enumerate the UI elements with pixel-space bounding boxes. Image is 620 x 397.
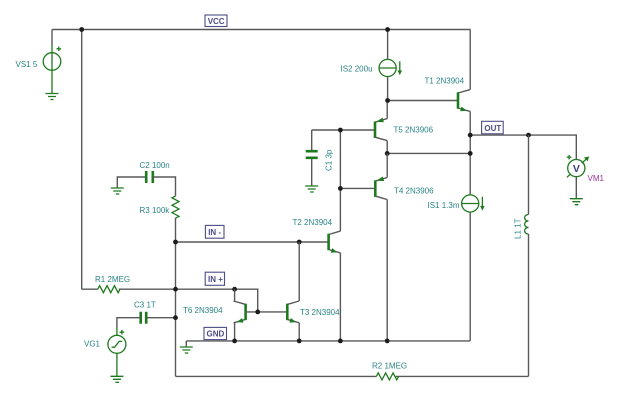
- svg-text:VCC: VCC: [208, 17, 225, 26]
- voltage source VS1: [43, 47, 61, 71]
- wire GND stub: [185, 341, 187, 347]
- label VM1: [588, 174, 605, 183]
- node junction (175.5,289.2): [173, 287, 178, 292]
- transistor T1 2N3904: [458, 90, 470, 112]
- transistor T5 2N3906 (PNP): [375, 118, 387, 141]
- svg-text:C1 3p: C1 3p: [325, 149, 334, 171]
- svg-text:IN -: IN -: [208, 228, 221, 237]
- svg-text:C2 100n: C2 100n: [140, 161, 170, 170]
- node junction (299.2,340.9): [297, 339, 302, 344]
- wire T4 emitter up: [386, 153, 388, 177]
- label T1 2N3904: [425, 77, 465, 86]
- wire left feedback drop x=81.7: [81, 30, 83, 290]
- wire bottom feedback rail y=376.4: [176, 375, 529, 377]
- wire T1 emitter / IS1 column: [469, 111, 471, 341]
- node junction (234.6,340.9): [232, 339, 237, 344]
- label C3 1T: [134, 301, 156, 310]
- label T3 2N3904: [300, 308, 340, 317]
- wire IS2 to T1 base: [388, 100, 458, 102]
- node junction (299.2,242): [297, 240, 302, 245]
- node junction (234.6,289.2): [232, 287, 237, 292]
- node junction (470.2,135.1): [468, 133, 473, 138]
- label VS1 5: [16, 60, 38, 69]
- label R2 1MEG: [372, 362, 407, 371]
- label C1 3p: [325, 149, 334, 171]
- voltmeter VM1: [567, 155, 589, 178]
- svg-text:VS1 5: VS1 5: [16, 60, 38, 69]
- wire OUT rail: [470, 135, 576, 159]
- svg-text:V: V: [573, 163, 580, 175]
- transistor T2 2N3904: [329, 231, 341, 253]
- resistor R2: [376, 373, 398, 380]
- wire C1 top leg: [311, 130, 313, 186]
- wire IN- rail: [176, 241, 329, 243]
- node junction (387.2,340.9): [385, 339, 390, 344]
- label T4 2N3906: [394, 187, 434, 196]
- svg-text:IS1 1.3m: IS1 1.3m: [428, 201, 460, 210]
- svg-text:OUT: OUT: [484, 124, 501, 133]
- label L1 1T: [514, 218, 523, 239]
- wire VCC top rail: [52, 29, 470, 31]
- svg-text:IN +: IN +: [208, 275, 223, 284]
- node IN+ label: [205, 272, 224, 285]
- wire T4 base: [340, 187, 375, 189]
- node junction (387.6,29.5): [385, 27, 390, 32]
- svg-text:GND: GND: [207, 330, 225, 339]
- wire IS2 column: [387, 30, 389, 101]
- label R1 2MEG: [95, 275, 130, 284]
- svg-text:T4 2N3906: T4 2N3906: [394, 187, 434, 196]
- current source IS2: [379, 59, 402, 76]
- wire T6 emitter: [234, 323, 235, 341]
- wire IN- column x=175.5: [175, 218, 177, 376]
- node junction (340.4,188.4): [338, 186, 343, 191]
- ground (GND net): [180, 347, 193, 353]
- label R3 100k: [140, 206, 171, 215]
- node IN- label: [205, 225, 224, 238]
- svg-text:T6 2N3904: T6 2N3904: [183, 306, 223, 315]
- wire C3 left to VG1: [117, 318, 141, 377]
- resistor R1: [98, 286, 120, 293]
- inductor L1: [525, 215, 529, 235]
- wire C1/T5 base rail: [312, 129, 375, 131]
- wire base rail T6-T3: [246, 311, 288, 313]
- node GND label: [204, 327, 227, 339]
- wire T6 collector: [234, 289, 235, 301]
- ground (VG1): [110, 376, 123, 382]
- label C2 100n: [140, 161, 170, 170]
- node junction at (81.7,29.5): [79, 27, 84, 32]
- ground (VS1): [46, 94, 59, 100]
- capacitor C2: [146, 171, 153, 183]
- wire VM1 lower stub: [575, 177, 577, 199]
- svg-text:L1 1T: L1 1T: [514, 218, 523, 239]
- capacitor C3: [141, 312, 147, 324]
- node junction (175.5,317.7): [173, 315, 178, 320]
- svg-text:R1 2MEG: R1 2MEG: [95, 275, 130, 284]
- svg-text:C3 1T: C3 1T: [134, 301, 156, 310]
- wire R1 row / IN+ rail: [82, 289, 258, 312]
- wire T2 emitter: [339, 253, 341, 341]
- wire T3 emitter: [298, 323, 300, 341]
- transistor T4 2N3906 (PNP): [375, 177, 387, 200]
- node OUT label: [482, 121, 504, 134]
- ground (VM1): [570, 199, 583, 205]
- wire C3 right leg: [146, 317, 175, 319]
- node junction (340.4,340.9): [338, 339, 343, 344]
- wire C2 right to R3: [153, 177, 176, 196]
- resistor R3: [172, 196, 179, 218]
- wire VS1 stubs: [51, 30, 53, 94]
- wire ground rail y=340.9: [186, 340, 470, 342]
- svg-text:T1 2N3904: T1 2N3904: [425, 77, 465, 86]
- svg-text:T5 2N3906: T5 2N3906: [394, 126, 434, 135]
- node junction (528.5,135.1): [526, 133, 531, 138]
- svg-text:T2 2N3904: T2 2N3904: [293, 218, 333, 227]
- svg-text:R3 100k: R3 100k: [140, 206, 171, 215]
- wire T3 collector: [298, 242, 300, 301]
- node junction (257.7,311.9): [255, 310, 260, 315]
- ground (C2): [111, 188, 124, 194]
- label T5 2N3906: [394, 126, 434, 135]
- svg-text:T3 2N3904: T3 2N3904: [300, 308, 340, 317]
- node junction (387.6,100.5): [385, 98, 390, 103]
- wire T4 collector down: [386, 200, 388, 341]
- label IS2 200u: [341, 65, 373, 74]
- current source IS1: [462, 195, 485, 212]
- node junction (340.4,130): [338, 128, 343, 133]
- wire T5 emitter up: [386, 101, 388, 119]
- wire T1 collector up: [469, 30, 471, 90]
- label IS1 1.3m: [428, 201, 460, 210]
- wire C2 left leg: [117, 177, 146, 188]
- wire T5 collector down: [386, 141, 388, 154]
- node junction (470.2,153.4): [468, 151, 473, 156]
- node junction (387.2,153.4): [385, 151, 390, 156]
- svg-text:R2 1MEG: R2 1MEG: [372, 362, 407, 371]
- wire T2 collector column x=340.4: [339, 130, 341, 231]
- capacitor C1: [306, 151, 318, 158]
- label T2 2N3904: [293, 218, 333, 227]
- svg-text:VM1: VM1: [588, 174, 605, 183]
- ground (C1): [305, 186, 318, 192]
- node junction (175.5,242): [173, 240, 178, 245]
- node VCC label: [205, 15, 227, 27]
- transistor T6 2N3904 (mirrored NPN): [234, 301, 246, 323]
- svg-text:IS2 200u: IS2 200u: [341, 65, 373, 74]
- wire T5/T4 mid rail y=153.4: [387, 152, 470, 154]
- wire L1 column: [528, 135, 530, 376]
- svg-text:VG1: VG1: [84, 340, 101, 349]
- transistor T3 2N3904: [287, 301, 299, 323]
- label VG1: [84, 340, 101, 349]
- generator VG1: [108, 330, 126, 353]
- label T6 2N3904: [183, 306, 223, 315]
